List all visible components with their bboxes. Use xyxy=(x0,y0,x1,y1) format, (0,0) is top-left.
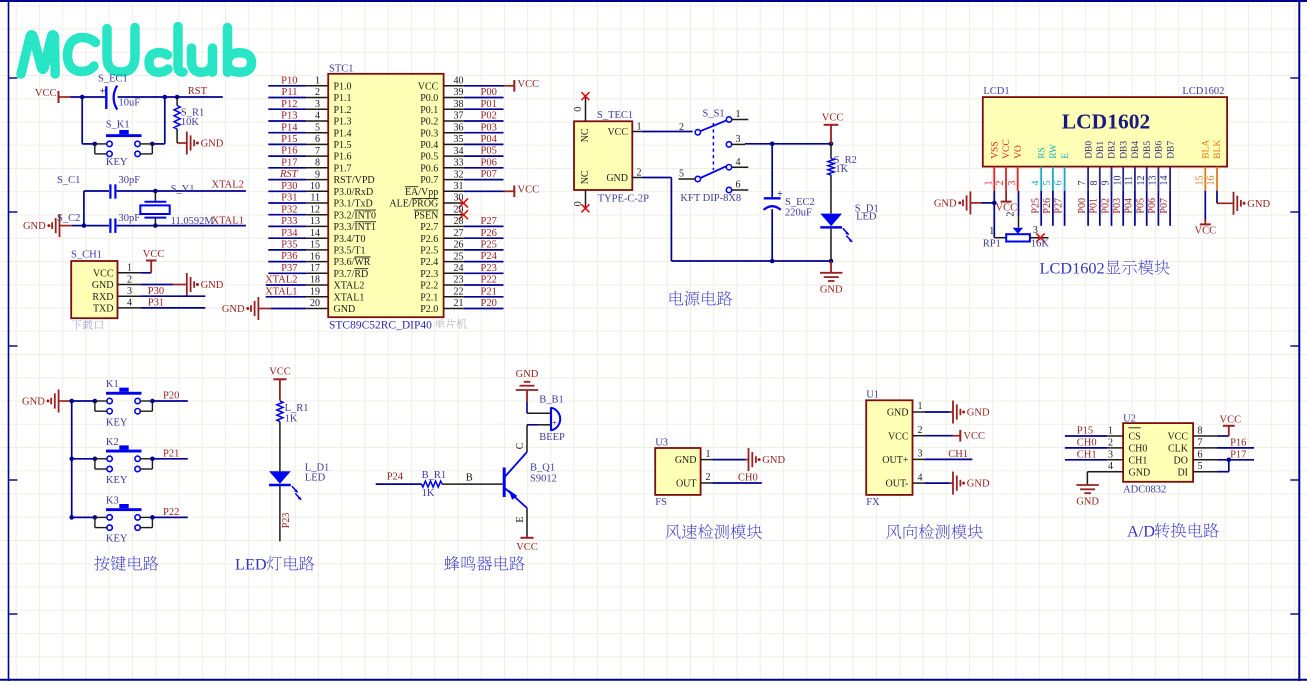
pin 5 P1.4 xyxy=(268,122,351,139)
svg-text:P10: P10 xyxy=(281,75,297,86)
pin 7 DB0 xyxy=(1077,141,1094,191)
svg-text:VCC: VCC xyxy=(1195,226,1217,237)
svg-text:CH1: CH1 xyxy=(948,449,968,460)
svg-text:1: 1 xyxy=(989,226,994,237)
svg-text:S_K1: S_K1 xyxy=(106,120,130,131)
svg-text:2: 2 xyxy=(315,87,320,98)
wire switch pin3 to VCC rail xyxy=(732,143,831,146)
svg-text:11: 11 xyxy=(310,193,320,204)
pin 29 PSEN xyxy=(414,204,468,221)
svg-text:P3.3/INT1: P3.3/INT1 xyxy=(334,222,377,233)
svg-text:P30: P30 xyxy=(281,181,297,192)
wire/net P04 xyxy=(1124,191,1135,226)
wire/net P02 xyxy=(1100,191,1111,226)
svg-text:CS: CS xyxy=(1129,432,1141,443)
svg-text:P13: P13 xyxy=(281,111,297,122)
svg-text:P1.5: P1.5 xyxy=(334,140,352,151)
svg-text:CH1: CH1 xyxy=(1129,455,1148,466)
svg-text:VCC: VCC xyxy=(93,268,114,279)
svg-text:P20: P20 xyxy=(481,298,497,309)
power port VCC (LED) xyxy=(269,367,291,401)
svg-text:EA/Vpp: EA/Vpp xyxy=(405,187,438,198)
svg-text:VCC: VCC xyxy=(1220,415,1242,426)
ground (U3) xyxy=(713,448,786,471)
svg-text:A/D: A/D xyxy=(1127,522,1155,541)
ground (reset) xyxy=(177,132,224,155)
svg-text:VCC: VCC xyxy=(269,367,291,378)
pin 23 P2.2 xyxy=(420,275,503,292)
pin 34 P0.5 xyxy=(420,146,503,163)
svg-text:S_CH1: S_CH1 xyxy=(71,250,102,261)
svg-text:16: 16 xyxy=(310,251,320,262)
svg-text:S9012: S9012 xyxy=(530,473,557,484)
pin 24 P2.3 xyxy=(420,263,503,280)
svg-text:OUT: OUT xyxy=(676,479,697,490)
svg-text:VCC: VCC xyxy=(822,113,844,124)
svg-text:P07: P07 xyxy=(1159,198,1170,214)
section label power circuit xyxy=(670,291,732,306)
svg-text:P21: P21 xyxy=(163,448,179,459)
svg-text:P2.1: P2.1 xyxy=(420,292,438,303)
section label key circuit xyxy=(94,556,158,571)
wire/net P03 xyxy=(1112,191,1123,226)
svg-text:P14: P14 xyxy=(281,122,298,133)
svg-text:30pF: 30pF xyxy=(119,213,141,224)
MCUclub logo xyxy=(21,27,252,75)
svg-text:DB4: DB4 xyxy=(1131,141,1141,159)
svg-text:1K: 1K xyxy=(285,413,298,424)
svg-text:P16: P16 xyxy=(1230,438,1246,449)
svg-text:VCC: VCC xyxy=(143,249,165,260)
pin 8 DB1 xyxy=(1089,141,1106,191)
svg-text:15: 15 xyxy=(310,240,320,251)
svg-text:XTAL1: XTAL1 xyxy=(212,215,244,226)
svg-text:1: 1 xyxy=(315,76,320,87)
svg-text:P32: P32 xyxy=(281,204,297,215)
svg-text:14: 14 xyxy=(310,228,320,239)
no-connect pin bottom xyxy=(573,190,589,212)
svg-text:DB3: DB3 xyxy=(1119,141,1129,159)
svg-text:STC1: STC1 xyxy=(329,63,354,74)
pin 1 VSS xyxy=(983,141,1000,190)
svg-text:P3.1/TxD: P3.1/TxD xyxy=(334,199,373,210)
svg-text:+: + xyxy=(552,418,557,428)
svg-text:DB2: DB2 xyxy=(1108,141,1118,159)
pin 7 P1.6 xyxy=(268,146,351,163)
svg-text:KEY: KEY xyxy=(106,475,128,486)
pin 32 P0.7 xyxy=(420,169,503,186)
power port VCC (U1) xyxy=(924,430,985,442)
svg-text:P2.0: P2.0 xyxy=(420,304,438,315)
svg-text:S_S1: S_S1 xyxy=(703,109,725,120)
pin 12 P3.2/INT0 xyxy=(268,204,376,221)
svg-text:P2.5: P2.5 xyxy=(420,246,438,257)
svg-text:P35: P35 xyxy=(281,240,297,251)
svg-text:VCC: VCC xyxy=(607,127,628,138)
svg-text:9: 9 xyxy=(1101,181,1112,186)
svg-text:KEY: KEY xyxy=(106,417,128,428)
svg-text:13: 13 xyxy=(310,216,320,227)
svg-text:6: 6 xyxy=(1198,449,1203,460)
svg-text:FS: FS xyxy=(655,497,667,508)
pin 9 DB2 xyxy=(1101,141,1118,191)
svg-text:P15: P15 xyxy=(281,134,297,145)
svg-text:RS: RS xyxy=(1037,147,1047,159)
label MCU chinese xyxy=(435,319,467,329)
pin 21 P2.0 xyxy=(420,298,503,315)
svg-text:P1.1: P1.1 xyxy=(334,93,352,104)
resistor S_R2 1K xyxy=(828,144,857,214)
svg-text:P20: P20 xyxy=(163,391,179,402)
svg-text:CH0: CH0 xyxy=(1077,438,1097,449)
svg-text:220uF: 220uF xyxy=(785,207,812,218)
svg-text:P22: P22 xyxy=(481,275,497,286)
capacitor S_C1 30pF xyxy=(57,175,155,199)
svg-text:CH1: CH1 xyxy=(1077,449,1097,460)
svg-text:P1.0: P1.0 xyxy=(334,81,352,92)
potentiometer RP1 16K xyxy=(983,212,1050,250)
pin 37 P0.2 xyxy=(420,111,503,128)
svg-text:P25: P25 xyxy=(481,240,497,251)
svg-text:GND: GND xyxy=(934,199,957,210)
svg-text:VCC: VCC xyxy=(518,185,540,196)
svg-text:0: 0 xyxy=(573,201,584,206)
power port VCC (reset) xyxy=(35,88,59,103)
svg-text:2: 2 xyxy=(1108,437,1113,448)
svg-text:20: 20 xyxy=(310,298,320,309)
svg-text:P1.4: P1.4 xyxy=(334,128,352,139)
svg-text:1K: 1K xyxy=(835,164,848,175)
pin 11 DB4 xyxy=(1124,141,1141,191)
svg-text:5: 5 xyxy=(315,122,320,133)
svg-text:31: 31 xyxy=(454,181,464,192)
svg-text:GND: GND xyxy=(967,479,990,490)
wire P30 xyxy=(140,295,205,297)
svg-text:GND: GND xyxy=(820,284,843,295)
svg-text:P00: P00 xyxy=(1077,198,1088,214)
push button K3 xyxy=(72,495,155,544)
svg-text:2: 2 xyxy=(637,167,642,178)
svg-text:FX: FX xyxy=(866,497,880,508)
svg-text:P0.7: P0.7 xyxy=(420,175,438,186)
svg-text:11.0592M: 11.0592M xyxy=(171,216,215,227)
svg-text:P1.7: P1.7 xyxy=(334,163,352,174)
svg-text:OUT+: OUT+ xyxy=(882,455,909,466)
svg-text:34: 34 xyxy=(454,146,464,157)
pin 15 BLA xyxy=(1194,140,1211,191)
wire/net CH1 (ADC) xyxy=(1065,449,1107,460)
svg-text:5: 5 xyxy=(679,169,684,180)
svg-text:VCC: VCC xyxy=(963,431,985,442)
svg-text:P3.6/WR: P3.6/WR xyxy=(334,257,371,268)
pin 10 P3.0/RxD xyxy=(268,181,373,198)
svg-text:5: 5 xyxy=(1042,181,1053,186)
svg-text:P0.2: P0.2 xyxy=(420,117,438,128)
pin 28 P2.7 xyxy=(420,216,503,233)
wire XTAL2 xyxy=(155,190,246,192)
ground (ADC) xyxy=(1076,472,1107,508)
svg-text:16K: 16K xyxy=(1031,239,1050,250)
pin 3 VO xyxy=(1007,145,1024,191)
svg-text:4: 4 xyxy=(736,157,741,168)
svg-text:U1: U1 xyxy=(866,390,879,401)
svg-text:GND: GND xyxy=(201,139,224,150)
ground (U1 pin1) xyxy=(924,401,990,424)
svg-text:P26: P26 xyxy=(481,228,497,239)
svg-text:DO: DO xyxy=(1174,455,1188,466)
svg-text:TYPE-C-2P: TYPE-C-2P xyxy=(598,193,649,204)
svg-text:C: C xyxy=(515,442,526,449)
svg-text:P04: P04 xyxy=(1124,198,1135,214)
ADC U2 ADC0832 xyxy=(1107,414,1217,496)
ground (crystal) xyxy=(23,214,86,237)
MCU U STC1 STC89C52RC_DIP40 xyxy=(328,63,443,331)
resistor S_R1 10K xyxy=(174,97,204,143)
svg-text:P27: P27 xyxy=(481,216,497,227)
svg-text:P22: P22 xyxy=(163,507,179,518)
overlines left pin names xyxy=(354,210,376,269)
svg-text:P21: P21 xyxy=(481,286,497,297)
pin 3 P1.2 xyxy=(268,99,351,116)
svg-text:VSS: VSS xyxy=(991,141,1001,158)
svg-text:E: E xyxy=(515,516,526,522)
svg-text:S_TEC1: S_TEC1 xyxy=(597,110,633,121)
svg-text:P2.4: P2.4 xyxy=(420,257,438,268)
svg-text:8: 8 xyxy=(1198,426,1203,437)
svg-text:10: 10 xyxy=(310,181,320,192)
pin 38 P0.1 xyxy=(420,99,503,116)
wire key ground rail xyxy=(69,399,74,520)
svg-text:P25: P25 xyxy=(1030,198,1041,214)
svg-text:23: 23 xyxy=(454,275,464,286)
pin 35 P0.4 xyxy=(420,134,503,151)
svg-text:VCC: VCC xyxy=(888,431,909,442)
wire/net P05 xyxy=(1136,191,1147,226)
svg-text:15: 15 xyxy=(1194,176,1205,186)
svg-text:P03: P03 xyxy=(481,122,497,133)
wire/net P26 xyxy=(1042,191,1053,226)
svg-text:DB0: DB0 xyxy=(1084,141,1094,159)
svg-text:S_Y1: S_Y1 xyxy=(171,184,195,195)
svg-text:P23: P23 xyxy=(481,263,497,274)
svg-text:XTAL2: XTAL2 xyxy=(212,180,244,191)
svg-text:GND: GND xyxy=(762,455,785,466)
svg-text:ALE/PROG: ALE/PROG xyxy=(389,199,438,210)
svg-text:14: 14 xyxy=(1159,176,1170,186)
power port VCC (LCD BLA) xyxy=(1195,191,1217,237)
wire/net P01 xyxy=(1089,191,1100,226)
svg-text:P1.3: P1.3 xyxy=(334,117,352,128)
LED S_D1 (power) xyxy=(820,203,878,261)
pin 6 P1.5 xyxy=(268,134,351,151)
ground (download) xyxy=(140,273,223,296)
svg-text:XTAL2: XTAL2 xyxy=(334,281,365,292)
wire bottom rail (power) xyxy=(642,178,834,264)
pin 11 P3.1/TxD xyxy=(268,193,372,210)
wire XTAL1 xyxy=(155,225,246,227)
svg-text:VCC: VCC xyxy=(516,542,538,553)
svg-text:10K: 10K xyxy=(181,117,200,128)
svg-text:P3.2/INT0: P3.2/INT0 xyxy=(334,210,377,221)
svg-text:3: 3 xyxy=(736,134,741,145)
pin 39 P0.0 xyxy=(420,87,503,104)
switch S_S1 KFT DIP-8X8 xyxy=(679,109,749,205)
svg-text:DB6: DB6 xyxy=(1155,141,1165,159)
svg-text:S_EC1: S_EC1 xyxy=(98,74,128,85)
svg-text:2: 2 xyxy=(679,122,684,133)
wire/net P07 xyxy=(1159,191,1170,226)
svg-text:8: 8 xyxy=(1089,181,1100,186)
svg-text:KFT DIP-8X8: KFT DIP-8X8 xyxy=(680,193,741,204)
svg-text:KEY: KEY xyxy=(106,157,128,168)
label download port xyxy=(72,320,103,330)
pin 10 DB3 xyxy=(1112,141,1129,191)
pin 36 P0.3 xyxy=(420,122,503,139)
svg-text:4: 4 xyxy=(1030,181,1041,186)
svg-text:P17: P17 xyxy=(1230,449,1246,460)
svg-text:33: 33 xyxy=(454,158,464,169)
wire VO to pot wiper xyxy=(1018,191,1020,228)
svg-text:PSEN: PSEN xyxy=(414,210,438,221)
connector S_CH1 download port xyxy=(71,250,140,319)
svg-text:P03: P03 xyxy=(1112,198,1123,214)
svg-text:1: 1 xyxy=(1108,426,1113,437)
svg-text:1: 1 xyxy=(637,121,642,132)
section label wind direction module xyxy=(886,524,983,539)
svg-text:LCD1602: LCD1602 xyxy=(1182,86,1224,97)
svg-text:GND: GND xyxy=(887,408,909,419)
wire crystal left rail xyxy=(83,191,85,226)
connector S_TEC1 TYPE-C-2P xyxy=(574,110,649,204)
svg-text:GND: GND xyxy=(1076,497,1099,508)
pin 26 P2.5 xyxy=(420,240,503,257)
svg-text:K2: K2 xyxy=(106,437,119,448)
svg-text:22: 22 xyxy=(454,287,464,298)
wire VSS to pot xyxy=(992,191,997,238)
svg-text:4: 4 xyxy=(315,111,320,122)
svg-text:4: 4 xyxy=(127,298,132,309)
ground (LCD BLK) xyxy=(1217,191,1270,215)
svg-text:RP1: RP1 xyxy=(983,239,1001,250)
svg-text:P36: P36 xyxy=(281,251,297,262)
svg-text:2: 2 xyxy=(918,425,923,436)
svg-text:LCD1: LCD1 xyxy=(983,86,1009,97)
svg-text:7: 7 xyxy=(315,146,320,157)
wire/net P06 xyxy=(1147,191,1158,226)
svg-text:P16: P16 xyxy=(281,146,297,157)
pin 2 P1.1 xyxy=(268,87,351,104)
svg-text:2: 2 xyxy=(127,274,132,285)
svg-text:XTAL1: XTAL1 xyxy=(334,292,365,303)
section label LCD display module xyxy=(1040,259,1170,278)
pin 6 E xyxy=(1054,153,1071,191)
wire collector xyxy=(515,425,527,452)
svg-text:VO: VO xyxy=(1014,145,1024,159)
wire/net P25 xyxy=(1030,191,1041,226)
svg-text:12: 12 xyxy=(310,204,320,215)
section label wind speed module xyxy=(665,524,762,539)
wire/net CH1 xyxy=(924,449,972,460)
svg-text:P0.4: P0.4 xyxy=(420,140,438,151)
svg-text:P0.0: P0.0 xyxy=(420,93,438,104)
svg-text:CH0: CH0 xyxy=(738,473,758,484)
power port VCC (download) xyxy=(140,249,164,273)
svg-text:35: 35 xyxy=(454,134,464,145)
svg-text:P0.6: P0.6 xyxy=(420,163,438,174)
pin 9 RST/VPD xyxy=(268,169,374,186)
svg-text:27: 27 xyxy=(454,228,464,239)
svg-text:16: 16 xyxy=(1206,176,1217,186)
pin 1 P1.0 xyxy=(268,75,351,92)
svg-text:CLK: CLK xyxy=(1168,444,1189,455)
svg-text:9: 9 xyxy=(315,169,320,180)
svg-text:P07: P07 xyxy=(481,169,497,180)
wire VCC to RST rail xyxy=(59,96,223,98)
svg-text:6: 6 xyxy=(736,180,741,191)
wire/net P21 xyxy=(152,448,187,459)
svg-text:0: 0 xyxy=(573,107,584,112)
svg-text:1: 1 xyxy=(736,109,741,120)
pin 31 EA/Vpp xyxy=(405,181,539,198)
junction dots on RST rail xyxy=(80,95,180,100)
svg-text:P00: P00 xyxy=(481,87,497,98)
svg-text:24: 24 xyxy=(454,263,464,274)
svg-text:P2.3: P2.3 xyxy=(420,269,438,280)
svg-text:LED: LED xyxy=(305,473,326,484)
svg-text:P2.7: P2.7 xyxy=(420,222,438,233)
svg-text:1: 1 xyxy=(918,401,923,412)
pin 20 GND xyxy=(271,298,355,315)
section label LED circuit xyxy=(235,555,314,574)
svg-text:P06: P06 xyxy=(1147,198,1158,214)
svg-text:P1.2: P1.2 xyxy=(334,105,352,116)
svg-text:LCD1602: LCD1602 xyxy=(1040,259,1105,278)
svg-text:GND: GND xyxy=(222,304,245,315)
svg-text:DB5: DB5 xyxy=(1143,141,1153,159)
svg-text:XTAL2: XTAL2 xyxy=(265,275,297,286)
transistor B_Q1 S9012 xyxy=(504,452,557,508)
svg-text:8: 8 xyxy=(315,158,320,169)
svg-text:KEY: KEY xyxy=(106,534,128,545)
module U1 FX wind direction xyxy=(866,390,924,509)
resistor B_R1 1K xyxy=(422,470,447,499)
svg-text:VCC: VCC xyxy=(1002,139,1012,159)
svg-text:P17: P17 xyxy=(281,157,297,168)
svg-text:2: 2 xyxy=(706,472,711,483)
svg-text:32: 32 xyxy=(454,169,464,180)
wire/net P17 xyxy=(1217,449,1254,462)
wire/net P23 xyxy=(280,486,292,541)
wire TYPEC pin1 to switch xyxy=(642,131,693,133)
svg-text:P05: P05 xyxy=(481,146,497,157)
svg-text:37: 37 xyxy=(454,111,464,122)
wire base xyxy=(442,472,503,484)
pin 33 P0.6 xyxy=(420,157,503,174)
svg-text:11: 11 xyxy=(1124,176,1135,186)
svg-text:GND: GND xyxy=(516,369,539,380)
wire P31 xyxy=(140,307,205,309)
svg-text:P11: P11 xyxy=(282,87,298,98)
ground (LCD left) xyxy=(934,191,994,214)
pin 15 P3.5/T1 xyxy=(268,240,365,257)
svg-text:4: 4 xyxy=(1108,461,1113,472)
power port VCC (power circuit) xyxy=(822,113,844,144)
pin 13 P3.3/INT1 xyxy=(268,216,376,233)
svg-text:26: 26 xyxy=(454,240,464,251)
svg-text:P30: P30 xyxy=(148,286,164,297)
svg-text:NC: NC xyxy=(580,170,591,184)
pin 30 ALE/PROG xyxy=(389,193,468,210)
